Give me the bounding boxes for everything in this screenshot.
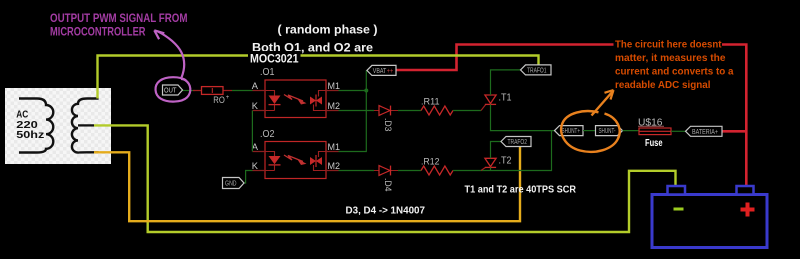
O2 internal light arrow <box>284 155 303 162</box>
svg-text:VBAT: VBAT <box>373 68 387 75</box>
O2 internal led <box>265 152 275 171</box>
wire SHUNT- to fuse <box>623 130 640 132</box>
wire R11 to T1 gate <box>453 110 481 112</box>
svg-text:K: K <box>252 161 259 171</box>
svg-text:.D3: .D3 <box>383 118 393 132</box>
svg-text:M2: M2 <box>328 161 341 171</box>
wire T1 cathode to SHUNT+ <box>491 104 555 130</box>
transformer primary coil <box>19 99 53 153</box>
battery <box>652 186 767 248</box>
junction dot M1 <box>364 89 368 93</box>
resistor RO leads <box>193 90 232 92</box>
wire resistor to O1 pin A <box>232 90 253 92</box>
svg-text:TRAFO2: TRAFO2 <box>508 139 528 146</box>
red annotation wire branch to BATERIA+ <box>722 130 746 133</box>
wire OUT tag to resistor RO <box>183 90 196 92</box>
O1 internal light arrow <box>284 95 303 102</box>
wire TRAFO2 to T2 anode <box>491 142 502 159</box>
thyristor T1 <box>481 91 512 110</box>
wire VBAT++ vertical to M1 pins <box>339 70 367 151</box>
svg-text:GND: GND <box>225 181 237 188</box>
resistor RO <box>202 87 224 95</box>
resistor R11 <box>421 96 453 115</box>
svg-text:.D4: .D4 <box>383 178 393 192</box>
OUT tag <box>163 85 183 95</box>
wire SHUNT+ to SHUNT- <box>583 130 596 132</box>
svg-text:current and converts to a: current and converts to a <box>615 67 734 78</box>
svg-text:D3, D4 -> 1N4007: D3, D4 -> 1N4007 <box>346 204 426 216</box>
wire TRAFO1 to T1 anode <box>491 70 521 95</box>
svg-text:.T2: .T2 <box>499 154 512 166</box>
svg-text:M1: M1 <box>328 142 341 152</box>
svg-text:+: + <box>226 95 230 101</box>
svg-text:MOC3021: MOC3021 <box>250 54 299 66</box>
TRAFO2 tag <box>501 137 531 147</box>
op(to)coupler O1 MOC3021 <box>252 66 340 118</box>
SHUNT- tag <box>596 126 623 136</box>
red annotation wire VBAT to battery + <box>396 45 746 187</box>
TRAFO1 tag <box>521 65 552 75</box>
svg-text:.R11: .R11 <box>421 96 440 107</box>
orange arrow to text <box>592 91 614 116</box>
O2 internal triac <box>310 157 322 165</box>
svg-text:matter, it measures the: matter, it measures the <box>615 53 726 64</box>
svg-text:SHUNT+: SHUNT+ <box>562 128 581 135</box>
wire GND tag to O2 K <box>244 171 253 184</box>
svg-text:.O2: .O2 <box>260 128 275 140</box>
svg-text:( random phase ): ( random phase ) <box>278 23 378 37</box>
diode D4 <box>374 166 398 192</box>
yellow-green annotation wire: transformer tap to battery minus <box>94 125 676 232</box>
transformer center tap <box>78 124 94 126</box>
svg-text:TRAFO1: TRAFO1 <box>527 67 547 74</box>
purple arrow to OUT <box>158 31 185 77</box>
VBAT++ tag <box>367 65 396 75</box>
svg-text:SHUNT-: SHUNT- <box>599 128 616 135</box>
svg-text:.T1: .T1 <box>499 91 512 103</box>
svg-text:.R12: .R12 <box>421 156 440 167</box>
wire O1 K to O2 A (series) <box>251 111 253 152</box>
SHUNT+ tag <box>555 126 584 136</box>
wire fuse to BATERIA+ <box>671 130 686 132</box>
thyristor T2 <box>481 154 512 170</box>
yellow-green annotation wire: PWM top (right segment to TRAFO1) <box>300 56 539 68</box>
resistor R12 <box>421 156 453 175</box>
svg-text:OUTPUT PWM SIGNAL FROM: OUTPUT PWM SIGNAL FROM <box>50 13 188 25</box>
white annotation: MOC3021 (with black backing over wire) <box>249 51 301 65</box>
wire O1 M2 to D3 <box>339 110 422 112</box>
transformer secondary coil <box>72 99 99 153</box>
O1 internal triac <box>310 97 322 105</box>
O1 internal led <box>265 91 275 111</box>
svg-text:++: ++ <box>387 68 394 75</box>
svg-text:Fuse: Fuse <box>645 138 663 149</box>
svg-text:MICROCONTROLLER: MICROCONTROLLER <box>50 26 146 38</box>
op(to)coupler O2 MOC3021 <box>252 128 340 179</box>
wire O2 M2 to D4 <box>339 170 422 172</box>
svg-text:readable ADC signal: readable ADC signal <box>615 80 711 91</box>
BATERIA+ tag <box>686 126 723 136</box>
svg-text:M2: M2 <box>328 101 341 111</box>
svg-text:RO: RO <box>213 95 225 105</box>
orange circle around SHUNT tags <box>561 111 619 152</box>
GND tag <box>223 178 245 189</box>
svg-text:M1: M1 <box>328 81 341 91</box>
wire R12 under T2 to riser <box>453 131 552 171</box>
diode D3 <box>374 106 398 132</box>
svg-text:T1 and T2 are 40TPS SCR: T1 and T2 are 40TPS SCR <box>465 185 577 196</box>
svg-text:BATERIA+: BATERIA+ <box>692 129 718 136</box>
yellow-green annotation wire: PWM top (left segment) <box>98 56 249 99</box>
fuse U$16 <box>638 117 671 149</box>
pin stubs O1 <box>253 91 339 111</box>
purple ellipse around OUT <box>156 77 191 101</box>
svg-text:A: A <box>252 81 259 91</box>
svg-text:K: K <box>252 101 259 111</box>
red-orange annotation text (black backing over red wire) <box>614 39 723 51</box>
svg-text:.O1: .O1 <box>260 66 275 78</box>
svg-text:OUT: OUT <box>164 86 177 95</box>
svg-text:The circuit here doesnt: The circuit here doesnt <box>615 40 722 51</box>
orange annotation wire: transformer bottom to TRAFO2 <box>94 145 520 221</box>
pin stubs O2 <box>253 152 339 171</box>
svg-text:50hz: 50hz <box>16 129 44 141</box>
